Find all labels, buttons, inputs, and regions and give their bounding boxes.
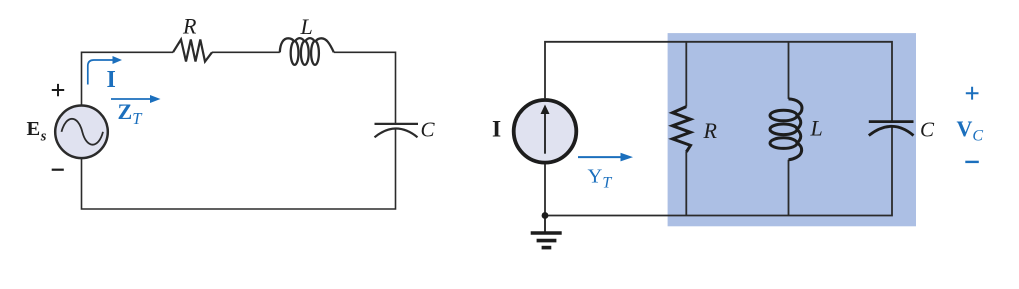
capacitor C (series, right branch)	[375, 124, 419, 137]
svg-text:I: I	[107, 67, 116, 93]
plus sign of VC	[966, 87, 979, 100]
plus sign of source	[52, 84, 64, 96]
inductor L (parallel, vertical coil)	[770, 99, 802, 160]
svg-text:C: C	[920, 118, 935, 142]
voltage source Es (sine source circle)	[55, 106, 108, 159]
junction node dot (ground node)	[542, 212, 549, 219]
minus sign of source	[52, 169, 64, 171]
svg-text:C: C	[421, 118, 436, 142]
resistor R (series, zigzag)	[173, 40, 212, 62]
admittance arrow YT	[578, 153, 633, 162]
capacitor C (parallel branch)	[869, 122, 914, 136]
svg-text:R: R	[182, 14, 197, 39]
impedance arrow ZT	[111, 95, 161, 103]
current source I (circle with up arrow)	[514, 100, 577, 163]
resistor R (parallel, vertical zigzag)	[673, 107, 691, 152]
svg-text:I: I	[492, 117, 501, 143]
ground symbol	[531, 216, 562, 248]
wire: right circuit top and bottom rails	[545, 42, 892, 216]
svg-text:L: L	[810, 116, 823, 141]
current arrow I (bent blue arrow)	[88, 56, 122, 85]
minus sign of VC	[965, 161, 979, 163]
shaded highlight box (parallel RLC region)	[668, 33, 916, 226]
svg-text:R: R	[703, 118, 718, 143]
inductor L (series coil)	[280, 38, 334, 65]
svg-text:L: L	[300, 14, 313, 39]
wire: left circuit outline (top, right, bottom segments)	[82, 52, 396, 209]
